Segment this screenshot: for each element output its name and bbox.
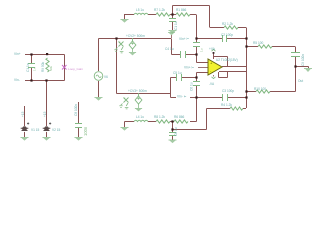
resistor R4 [230,107,243,110]
svg-text:+CV2+ 500m: +CV2+ 500m [126,34,145,38]
ground top chain [121,20,129,23]
wire CV2 row y38 [99,38,172,40]
wire opamp minus input [197,55,209,63]
svg-text:V1 15: V1 15 [31,128,40,132]
svg-text:1n: 1n [33,67,37,71]
svg-text:C6 1u: C6 1u [190,82,194,91]
capacitor C7 vertical [193,43,200,47]
VCVS CV2 [114,38,136,53]
junction bottom rail R9/V2 [45,79,47,81]
supply -VA marker [212,75,216,79]
ground above C4 corner [168,33,175,39]
ground bottom chain [121,128,129,131]
svg-text:VIn+ ⊢: VIn+ ⊢ [184,66,195,70]
resistor R7 [156,13,170,16]
junction C9 / ground branch [294,65,296,67]
wire x172 top cap column [172,15,174,31]
wire C9 column x295 [295,47,297,67]
capacitor C2 [223,35,227,42]
wire C8 column x78 [78,102,80,137]
junction C6b / R4 return [171,128,173,130]
junction top rail C1 [30,53,32,55]
wire x246 vertical [246,28,248,109]
wire feedback top [214,57,228,67]
junction C3 row / R4 [245,96,247,98]
wire opamp output [222,66,246,68]
wire C1 column x31 [31,55,33,81]
junction C2 row / R2 [245,37,247,39]
svg-text:VIn-: VIn- [14,78,20,82]
wire C4 drop x171 [172,39,197,55]
svg-text:50k: 50k [49,66,53,71]
wire R10 row y91 [247,91,257,93]
junction bottom chain R8/R6 [171,120,173,122]
wire x196 feedback column [190,78,197,122]
ground V1 [21,138,29,141]
svg-text:R10 100: R10 100 [254,87,266,91]
resistor R2 [224,26,238,29]
source V6 [94,72,103,81]
svg-text:1u: 1u [200,48,204,52]
ground CV2 diamond [129,49,136,55]
resistor R10 [256,90,270,93]
junction top chain / C1b tap [171,13,173,15]
junction C4 / C7 [195,53,197,55]
svg-text:VIn- ⊢: VIn- ⊢ [177,95,187,99]
capacitor C4 [181,51,186,58]
svg-text:+VA: +VA [209,47,216,51]
wire x295 down to R10 [270,67,296,92]
ground x172 bottom [169,140,177,143]
svg-text:R2 1.2k: R2 1.2k [222,22,233,26]
wire x172 bottom cap column [172,122,174,141]
svg-text:C8 100n: C8 100n [74,104,78,116]
node Loop_Gain marker [62,65,67,70]
wire C9 ground branch [296,67,309,69]
wire V2 lower [46,132,48,137]
capacitor C8 x78 [75,124,82,128]
inductor L5 [134,13,148,14]
junction CV2 input tap [115,37,117,39]
svg-text:R9 50k: R9 50k [41,61,45,72]
resistor R6 [174,120,188,123]
inductor L4 [134,120,148,121]
wire top box [173,6,210,28]
VCVS CV3 [119,93,142,109]
svg-text:L5 1u: L5 1u [136,8,144,12]
svg-text:C9 100n: C9 100n [301,54,305,66]
wire V1 column x24 [24,106,26,137]
capacitor C6 vertical on x196 [193,82,200,86]
capacitor C5 [177,74,182,81]
ground CV3 diamond [135,104,142,111]
svg-text:R8 1.2k: R8 1.2k [154,115,165,119]
wire C2 row y38 [197,38,247,40]
capacitor top column x172 [169,19,176,22]
capacitor C1 vertical x31 [28,64,35,68]
svg-text:C3 100p: C3 100p [222,89,234,93]
node Vin+ junction [195,37,197,39]
resistor R1 [176,13,190,16]
capacitor C9 x295 [291,53,300,57]
svg-text:+15: +15 [43,111,47,117]
battery V1 [21,122,30,131]
wire vin+ flag stub [198,67,208,69]
junction top rail R9 [46,53,48,55]
wire top chain ground stem [124,15,126,20]
junction bottom rail C1 [30,79,32,81]
wire R2 row y27 [210,27,247,29]
junction R10 tap [245,90,247,92]
svg-text:C6 1u: C6 1u [174,127,178,136]
svg-text:C2 100p: C2 100p [221,33,233,37]
svg-text:R1 866: R1 866 [176,8,187,12]
wire C7 column x196 [196,39,198,55]
svg-text:Out: Out [298,79,303,83]
wire left network top rail y54 [25,55,65,81]
label Vin- flag [176,93,190,99]
svg-text:U2 TL082(15V): U2 TL082(15V) [216,58,238,62]
wire opamp supply top [213,53,215,59]
wire C3 row y97 [197,97,247,99]
svg-text:+15: +15 [21,111,25,117]
op-amp U2 [208,59,222,75]
svg-text:R7 1.2k: R7 1.2k [154,8,165,12]
ground C8 [75,138,83,141]
svg-text:-VA: -VA [209,82,215,86]
wire under-box [219,72,228,78]
ground C9 branch [304,69,312,73]
battery V2 [43,122,52,131]
wire top chain row y14 [124,14,196,16]
svg-text:V6: V6 [104,75,108,79]
ground x172 top [169,31,177,34]
wire V6 column [98,39,100,98]
resistor R9 vertical [46,58,49,72]
svg-text:VIn+ ⊢: VIn+ ⊢ [179,37,190,41]
capacitor C3 [223,94,228,101]
svg-text:V2 15: V2 15 [52,128,61,132]
wire output lower y71 [219,66,247,91]
junction R5 tap [245,45,247,47]
wire R4 row y108 [207,108,247,110]
svg-text:C1 1n: C1 1n [26,63,30,72]
svg-text:R4 1.2k: R4 1.2k [221,103,232,107]
resistor R5 [258,45,272,48]
wire opamp plus input [197,73,214,78]
wire CV3 row y93 [117,78,197,98]
svg-text:L4 1u: L4 1u [136,115,144,119]
svg-text:C4 1u: C4 1u [165,47,174,51]
svg-text:C5 1u: C5 1u [173,71,182,75]
wire V2 column x46 [46,81,48,127]
wire x206 down [172,109,207,130]
wire CV3 drop x116 [116,39,118,94]
capacitor bottom column x172 [169,133,176,136]
svg-text:C1 1u: C1 1u [174,21,178,30]
svg-text:R6 866: R6 866 [174,115,185,119]
ground V2 [43,138,51,141]
junction C5 / opamp plus [195,76,197,78]
wire C5 row y77 [171,77,197,79]
node Vin- junction [195,96,197,98]
wire R5 row y46 [247,46,296,48]
svg-text:+CV3+ 500m: +CV3+ 500m [128,89,147,93]
supply +VA marker [212,49,216,53]
wire bottom chain row y121 [125,122,197,128]
svg-text:R5 100: R5 100 [253,41,264,45]
resistor R8 [156,120,170,123]
svg-text:Loop_Gain: Loop_Gain [68,67,83,71]
svg-text:100n: 100n [83,126,88,136]
ground V6 [95,98,103,101]
svg-text:VIn+: VIn+ [14,52,21,56]
wire R1 down x196 [196,15,198,39]
